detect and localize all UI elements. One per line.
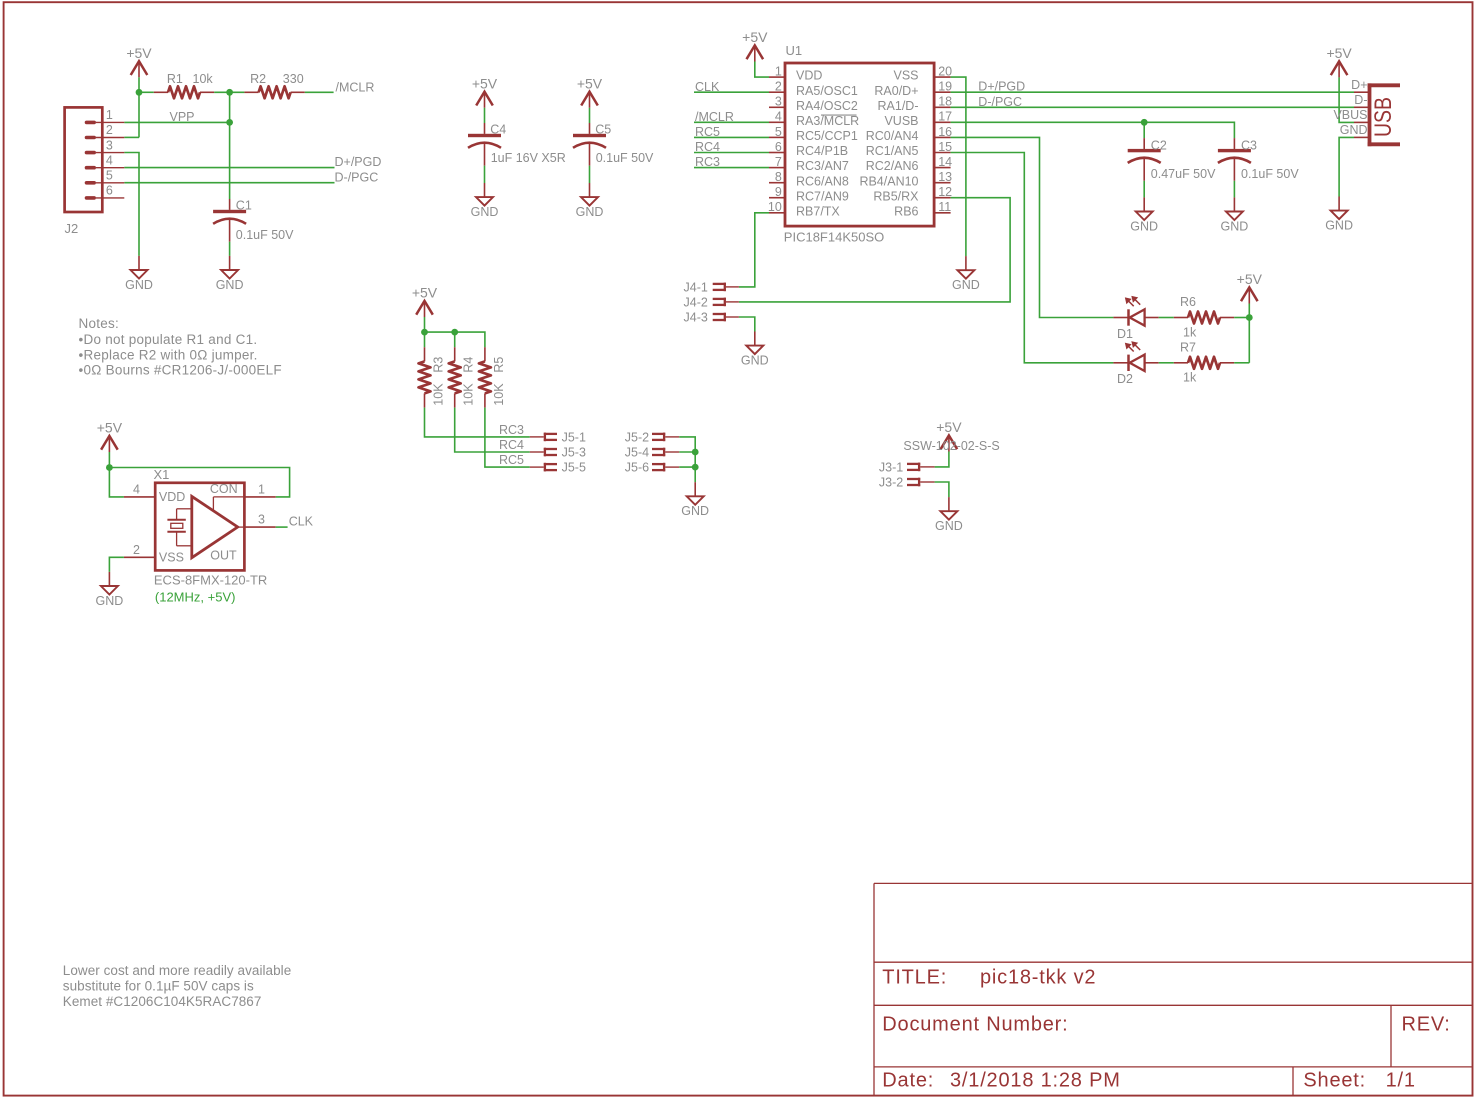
svg-text:18: 18 bbox=[938, 95, 952, 109]
svg-text:VUSB: VUSB bbox=[884, 114, 918, 128]
svg-text:pic18-tkk v2: pic18-tkk v2 bbox=[980, 967, 1096, 989]
svg-text:17: 17 bbox=[938, 110, 952, 124]
svg-text:Document Number:: Document Number: bbox=[882, 1014, 1068, 1036]
svg-text:U1: U1 bbox=[786, 43, 803, 58]
svg-text:J5-4: J5-4 bbox=[625, 446, 649, 460]
svg-text:+5V: +5V bbox=[472, 75, 498, 91]
svg-text:R2: R2 bbox=[250, 72, 266, 86]
svg-text:/MCLR: /MCLR bbox=[695, 110, 734, 124]
svg-text:D+/PGD: D+/PGD bbox=[335, 155, 382, 169]
svg-text:J5-2: J5-2 bbox=[625, 431, 649, 445]
svg-text:GND: GND bbox=[935, 519, 963, 533]
svg-text:0.47uF 50V: 0.47uF 50V bbox=[1151, 167, 1216, 181]
svg-text:8: 8 bbox=[775, 170, 782, 184]
svg-text:1k: 1k bbox=[1183, 371, 1197, 385]
svg-text:3: 3 bbox=[775, 95, 782, 109]
svg-text:RC0/AN4: RC0/AN4 bbox=[866, 129, 919, 143]
svg-text:J5-6: J5-6 bbox=[625, 461, 649, 475]
svg-text:10K: 10K bbox=[462, 383, 476, 406]
svg-text:9: 9 bbox=[775, 185, 782, 199]
svg-text:1k: 1k bbox=[1183, 325, 1197, 339]
svg-text:TITLE:: TITLE: bbox=[882, 967, 947, 989]
svg-text:•Do not populate R1 and C1.: •Do not populate R1 and C1. bbox=[79, 332, 258, 347]
svg-text:RA4/OSC2: RA4/OSC2 bbox=[796, 99, 858, 113]
svg-text:J5-5: J5-5 bbox=[562, 461, 586, 475]
svg-text:VBUS: VBUS bbox=[1333, 108, 1367, 122]
svg-text:R3: R3 bbox=[431, 357, 445, 373]
svg-text:10: 10 bbox=[768, 200, 782, 214]
svg-text:USB: USB bbox=[1370, 97, 1397, 137]
svg-text:Kemet #C1206C104K5RAC7867: Kemet #C1206C104K5RAC7867 bbox=[63, 994, 262, 1009]
svg-text:19: 19 bbox=[938, 80, 952, 94]
svg-text:C2: C2 bbox=[1151, 138, 1167, 152]
svg-text:7: 7 bbox=[775, 155, 782, 169]
svg-text:14: 14 bbox=[938, 155, 952, 169]
svg-text:D+: D+ bbox=[1351, 78, 1367, 92]
svg-text:J4-3: J4-3 bbox=[684, 311, 708, 325]
svg-text:R1: R1 bbox=[167, 72, 183, 86]
svg-text:6: 6 bbox=[106, 184, 113, 198]
svg-text:+5V: +5V bbox=[1237, 271, 1263, 287]
svg-text:VDD: VDD bbox=[796, 69, 822, 83]
svg-text:0.1uF 50V: 0.1uF 50V bbox=[236, 228, 294, 242]
svg-text:R5: R5 bbox=[492, 357, 506, 373]
svg-text:1: 1 bbox=[106, 108, 113, 122]
svg-text:6: 6 bbox=[775, 140, 782, 154]
svg-text:5: 5 bbox=[106, 169, 113, 183]
svg-text:•0Ω Bourns #CR1206-J/-000ELF: •0Ω Bourns #CR1206-J/-000ELF bbox=[79, 363, 282, 378]
svg-text:/MCLR: /MCLR bbox=[336, 80, 375, 94]
svg-text:GND: GND bbox=[741, 354, 769, 368]
svg-text:CON: CON bbox=[210, 482, 238, 496]
svg-text:12: 12 bbox=[938, 185, 952, 199]
svg-text:R7: R7 bbox=[1180, 341, 1196, 355]
svg-text:R4: R4 bbox=[462, 357, 476, 373]
svg-text:1: 1 bbox=[775, 65, 782, 79]
svg-text:RA0/D+: RA0/D+ bbox=[874, 84, 918, 98]
svg-text:J4-2: J4-2 bbox=[684, 296, 708, 310]
svg-text:4: 4 bbox=[775, 110, 782, 124]
svg-text:D-: D- bbox=[1354, 93, 1367, 107]
svg-text:VPP: VPP bbox=[170, 110, 195, 124]
svg-text:ECS-8FMX-120-TR: ECS-8FMX-120-TR bbox=[154, 573, 267, 588]
svg-text:GND: GND bbox=[1221, 219, 1249, 233]
svg-text:20: 20 bbox=[938, 65, 952, 79]
svg-text:11: 11 bbox=[938, 200, 951, 214]
svg-text:GND: GND bbox=[471, 205, 499, 219]
svg-text:Lower cost and more readily av: Lower cost and more readily available bbox=[63, 963, 291, 978]
svg-text:2: 2 bbox=[106, 123, 113, 137]
svg-text:C3: C3 bbox=[1241, 138, 1257, 152]
svg-text:D2: D2 bbox=[1117, 372, 1133, 386]
svg-text:Sheet:: Sheet: bbox=[1303, 1070, 1366, 1092]
svg-text:1: 1 bbox=[258, 482, 265, 496]
svg-text:15: 15 bbox=[938, 140, 952, 154]
svg-text:J2: J2 bbox=[65, 221, 79, 236]
svg-text:C1: C1 bbox=[236, 198, 252, 212]
svg-text:3: 3 bbox=[106, 138, 113, 152]
svg-text:RB7/TX: RB7/TX bbox=[796, 204, 840, 218]
svg-text:J5-1: J5-1 bbox=[562, 431, 586, 445]
svg-text:RC3/AN7: RC3/AN7 bbox=[796, 159, 849, 173]
svg-text:1/1: 1/1 bbox=[1386, 1070, 1416, 1092]
svg-text:+5V: +5V bbox=[742, 29, 768, 45]
svg-text:RC4/P1B: RC4/P1B bbox=[796, 144, 848, 158]
svg-text:J5-3: J5-3 bbox=[562, 446, 586, 460]
svg-text:D+/PGD: D+/PGD bbox=[978, 80, 1025, 94]
svg-text:10k: 10k bbox=[193, 72, 214, 86]
svg-text:RA1/D-: RA1/D- bbox=[878, 99, 919, 113]
svg-text:RC7/AN9: RC7/AN9 bbox=[796, 189, 849, 203]
svg-text:1uF 16V X5R: 1uF 16V X5R bbox=[491, 151, 566, 165]
svg-text:D1: D1 bbox=[1117, 327, 1133, 341]
svg-text:16: 16 bbox=[938, 125, 952, 139]
svg-text:0.1uF 50V: 0.1uF 50V bbox=[1241, 167, 1299, 181]
svg-text:C4: C4 bbox=[490, 123, 506, 137]
svg-text:OUT: OUT bbox=[210, 549, 237, 563]
svg-text:3/1/2018 1:28 PM: 3/1/2018 1:28 PM bbox=[950, 1070, 1121, 1092]
svg-text:RC1/AN5: RC1/AN5 bbox=[866, 144, 919, 158]
svg-text:GND: GND bbox=[1325, 219, 1353, 233]
svg-text:R6: R6 bbox=[1180, 295, 1196, 309]
svg-text:GND: GND bbox=[681, 504, 709, 518]
svg-text:•Replace R2 with 0Ω jumper.: •Replace R2 with 0Ω jumper. bbox=[79, 347, 258, 362]
svg-text:C5: C5 bbox=[595, 123, 611, 137]
svg-text:J4-1: J4-1 bbox=[684, 281, 708, 295]
svg-text:4: 4 bbox=[106, 153, 113, 167]
svg-text:RC6/AN8: RC6/AN8 bbox=[796, 174, 849, 188]
svg-text:5: 5 bbox=[775, 125, 782, 139]
svg-text:D-/PGC: D-/PGC bbox=[335, 170, 379, 184]
svg-text:RA3/MCLR: RA3/MCLR bbox=[796, 114, 859, 128]
svg-text:2: 2 bbox=[775, 80, 782, 94]
svg-text:+5V: +5V bbox=[126, 45, 152, 61]
svg-text:GND: GND bbox=[952, 278, 980, 292]
svg-text:Notes:: Notes: bbox=[79, 316, 120, 331]
svg-text:GND: GND bbox=[125, 278, 153, 292]
svg-text:(12MHz, +5V): (12MHz, +5V) bbox=[155, 590, 236, 605]
svg-text:330: 330 bbox=[283, 72, 304, 86]
svg-text:CLK: CLK bbox=[695, 80, 720, 94]
svg-text:GND: GND bbox=[216, 278, 244, 292]
svg-text:13: 13 bbox=[938, 170, 952, 184]
svg-text:+5V: +5V bbox=[412, 285, 438, 301]
svg-text:RC4: RC4 bbox=[499, 438, 524, 452]
svg-text:+5V: +5V bbox=[97, 420, 123, 436]
svg-text:RC5: RC5 bbox=[499, 453, 524, 467]
svg-text:RB5/RX: RB5/RX bbox=[873, 189, 919, 203]
svg-text:VSS: VSS bbox=[893, 69, 918, 83]
svg-text:GND: GND bbox=[96, 594, 124, 608]
svg-text:PIC18F14K50SO: PIC18F14K50SO bbox=[784, 229, 884, 244]
svg-text:VSS: VSS bbox=[159, 550, 184, 564]
svg-text:CLK: CLK bbox=[289, 515, 314, 529]
svg-text:RB6: RB6 bbox=[894, 204, 918, 218]
svg-text:J3-2: J3-2 bbox=[879, 476, 903, 490]
svg-text:VDD: VDD bbox=[159, 490, 185, 504]
svg-text:substitute for 0.1µF 50V caps: substitute for 0.1µF 50V caps is bbox=[63, 978, 254, 993]
svg-text:10K: 10K bbox=[431, 383, 445, 406]
svg-text:10K: 10K bbox=[492, 383, 506, 406]
svg-text:2: 2 bbox=[133, 543, 140, 557]
svg-text:GND: GND bbox=[576, 205, 604, 219]
svg-text:+5V: +5V bbox=[577, 75, 603, 91]
svg-text:REV:: REV: bbox=[1402, 1014, 1451, 1036]
svg-text:GND: GND bbox=[1340, 123, 1368, 137]
svg-text:J3-1: J3-1 bbox=[879, 461, 903, 475]
svg-text:D-/PGC: D-/PGC bbox=[978, 95, 1022, 109]
svg-text:RB4/AN10: RB4/AN10 bbox=[859, 174, 918, 188]
svg-text:X1: X1 bbox=[154, 467, 170, 482]
svg-text:+5V: +5V bbox=[936, 419, 962, 435]
svg-text:RC5/CCP1: RC5/CCP1 bbox=[796, 129, 858, 143]
svg-text:RA5/OSC1: RA5/OSC1 bbox=[796, 84, 858, 98]
svg-text:RC2/AN6: RC2/AN6 bbox=[866, 159, 919, 173]
svg-text:+5V: +5V bbox=[1326, 45, 1352, 61]
svg-text:RC4: RC4 bbox=[695, 140, 720, 154]
svg-text:RC3: RC3 bbox=[695, 155, 720, 169]
svg-text:RC3: RC3 bbox=[499, 423, 524, 437]
svg-text:GND: GND bbox=[1130, 219, 1158, 233]
svg-text:Date:: Date: bbox=[882, 1070, 934, 1092]
svg-text:3: 3 bbox=[258, 513, 265, 527]
svg-text:4: 4 bbox=[133, 482, 140, 496]
svg-text:RC5: RC5 bbox=[695, 125, 720, 139]
svg-text:0.1uF 50V: 0.1uF 50V bbox=[596, 151, 654, 165]
svg-text:SSW-102-02-S-S: SSW-102-02-S-S bbox=[903, 439, 999, 453]
